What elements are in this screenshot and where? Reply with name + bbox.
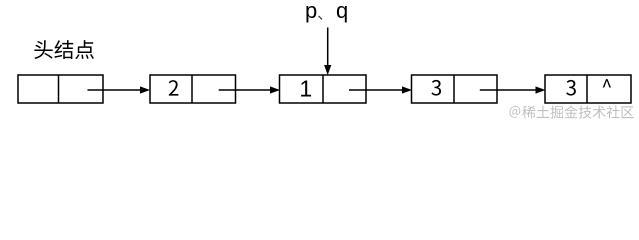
svg-text:p: p <box>305 0 317 23</box>
svg-text:q: q <box>336 0 348 23</box>
svg-text:1: 1 <box>299 76 312 102</box>
